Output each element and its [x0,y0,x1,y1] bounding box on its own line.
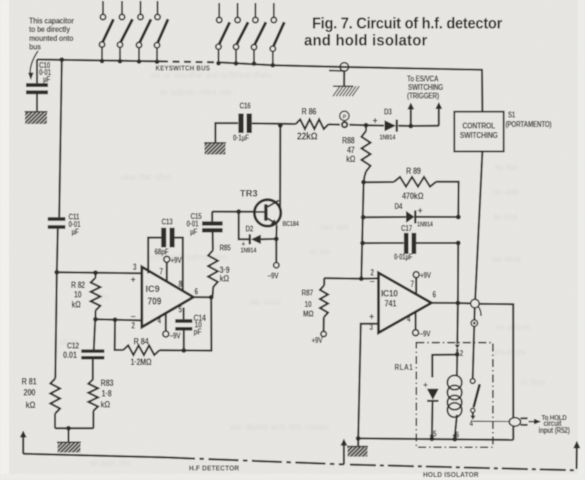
keyswitch S2 (left group) [117,1,132,64]
IC10 output node [431,301,470,306]
keyswitch S8 (right group) [270,3,284,68]
relay contact switch [470,379,480,429]
node TR3 collector junction [278,123,283,128]
diode D4 [363,201,460,229]
figure title [304,15,502,49]
relay protection diode [423,355,457,439]
bracket arrow divider [341,439,348,465]
resistor R81 [22,376,61,429]
diode D3 [366,107,411,142]
ground (IC10 pin3) [336,446,396,458]
transistor TR3 [240,125,299,228]
resistor R84 feedback [113,297,212,367]
relay common bottom wire [358,436,513,441]
resistor R86 [280,106,340,143]
wire pin3 input [57,272,142,273]
label S1 (PORTAMENTO) [506,111,553,129]
wire P to D3 [349,123,368,128]
IC9 pin7 +9V [164,256,182,282]
wire pin2 input [93,317,142,322]
op-amp IC10 [361,267,436,332]
control switching box [454,112,503,152]
capacitor C11 [48,212,81,237]
keyswitch S5 (right group) [216,3,230,66]
label To HOLD circuit input [529,415,571,436]
hold isolator bracket [350,441,580,479]
resistor R85 [208,232,230,297]
capacitor C16 [215,101,280,144]
relay RLA1 box [395,343,493,448]
capacitor C12 [63,319,104,379]
diode D2 [239,212,277,255]
keyswitch S6 (right group) [233,3,248,66]
resistor R88 [342,125,371,182]
wire contact to hold connector [473,420,509,422]
keyswitch S3 (left group) [136,1,151,64]
relay coil RLA1 [447,354,461,439]
resistor R82 [71,270,100,319]
IC10 pin3 wire to ground rail [356,324,379,447]
wire output to hold connector [479,304,513,440]
note: capacitor mounting annotation [28,16,74,80]
IC10 pin7 +9V [413,271,431,294]
relay coil branch from output [455,303,463,358]
IC9 output wire node [193,295,213,300]
keyswitch S1 (left group) [99,1,113,63]
trigger arrows to ES/VCA [407,74,444,129]
H.F. detector bracket [20,431,344,473]
resistor R87 [301,278,361,345]
capacitor C14 [175,308,206,353]
TR3 emitter to -9V [268,225,279,280]
IC9 pin4 -9V [163,312,181,340]
capacitor C10 [26,60,51,113]
keyswitch S7 (right group) [251,3,266,66]
ground wire (R81/R83) [55,426,93,443]
node P [340,111,349,127]
op-amp IC9 [131,262,198,331]
left rail from bus [54,57,64,378]
ground (detector common) [46,442,106,454]
IC10 pin4 -9V [413,312,431,339]
ground at bus (chassis) [329,63,359,97]
wire TR3 base [212,209,264,214]
keyswitch bus wire [37,60,482,112]
resistor R83 [88,378,113,428]
capacitor C17 [363,223,461,303]
hold output connector [509,418,527,427]
control line to relay contact [471,151,483,378]
capacitor C15 [187,211,223,237]
ground (C10) [13,111,75,125]
resistor R89 [364,165,459,217]
capacitor C13 [148,217,183,291]
keyswitch S4 (left group) [154,1,168,64]
rail R88 to IC10 pin2 [359,180,366,281]
ground (C16) [193,142,254,155]
